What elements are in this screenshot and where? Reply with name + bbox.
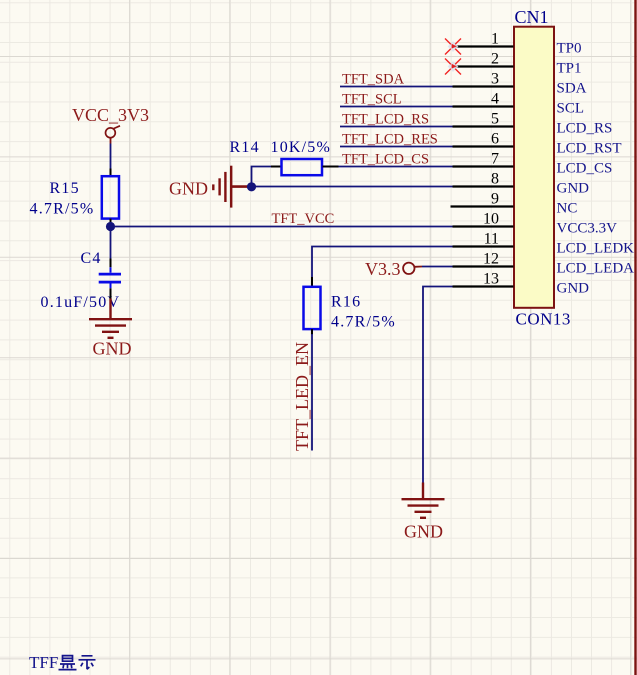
resistor R16 (304, 287, 396, 335)
wire C4 to ground (109, 299, 111, 319)
svg-text:9: 9 (491, 191, 499, 208)
pin 12 (453, 251, 635, 277)
ground GND bottom (402, 499, 445, 541)
pin 4 (453, 91, 585, 117)
svg-text:7: 7 (491, 151, 499, 168)
svg-text:VCC_3V3: VCC_3V3 (72, 105, 149, 125)
wire net TFT_SDA (pin 3) (340, 86, 453, 88)
svg-text:TFT_LCD_RES: TFT_LCD_RES (342, 131, 438, 147)
svg-text:4.7R/5%: 4.7R/5% (331, 314, 396, 331)
svg-text:GND: GND (93, 339, 132, 359)
svg-text:NC: NC (557, 201, 578, 217)
svg-text:4.7R/5%: 4.7R/5% (30, 201, 95, 218)
svg-text:TFT_LCD_CS: TFT_LCD_CS (342, 151, 429, 167)
svg-text:12: 12 (483, 251, 499, 268)
pin 6 (453, 131, 622, 157)
svg-text:6: 6 (491, 131, 499, 148)
pin 11 (453, 231, 635, 257)
svg-text:TFT_VCC: TFT_VCC (272, 211, 335, 227)
svg-text:CON13: CON13 (516, 310, 571, 329)
svg-text:8: 8 (491, 171, 499, 188)
pin 2 (453, 51, 582, 77)
svg-text:LCD_CS: LCD_CS (557, 161, 613, 177)
no-connect X pin 2 (445, 59, 461, 75)
svg-text:10K/5%: 10K/5% (271, 139, 332, 156)
wire pin 11 to R16 (312, 247, 453, 287)
svg-text:SDA: SDA (557, 81, 587, 97)
svg-text:LCD_LEDK: LCD_LEDK (557, 241, 635, 257)
pin 5 (453, 111, 613, 137)
wire R14 to pin 7 (net TFT_LCD_CS) (339, 166, 453, 168)
wire node to pin 8 (252, 186, 453, 188)
power port VCC_3V3 (72, 105, 149, 144)
svg-text:10: 10 (483, 211, 499, 228)
pin 13 (453, 271, 590, 297)
svg-text:11: 11 (484, 231, 499, 248)
no-connect X pin 1 (445, 39, 461, 55)
svg-text:TFT_SCL: TFT_SCL (342, 91, 402, 107)
pin 3 (453, 71, 587, 97)
wire V3.3 to pin 12 (422, 266, 453, 268)
svg-text:SCL: SCL (557, 101, 585, 117)
svg-text:V3.3: V3.3 (365, 259, 401, 279)
svg-text:LCD_RS: LCD_RS (557, 121, 613, 137)
resistor R14 (230, 139, 339, 175)
svg-text:GND: GND (169, 179, 208, 199)
wire net TFT_LED_EN below R16 (311, 334, 313, 451)
svg-text:TFT_LCD_RS: TFT_LCD_RS (342, 111, 429, 127)
pin 1 (453, 31, 582, 57)
svg-text:1: 1 (491, 31, 499, 48)
wire node up to R14 (252, 167, 272, 187)
pin 8 (453, 171, 590, 197)
svg-text:CN1: CN1 (515, 7, 549, 27)
svg-text:TFT_SDA: TFT_SDA (342, 71, 405, 87)
pin 9 (451, 191, 578, 217)
capacitor C4 (41, 250, 122, 311)
wire TFT_VCC net (node to pin 10) (111, 226, 453, 228)
svg-text:13: 13 (483, 271, 499, 288)
svg-text:TP1: TP1 (557, 61, 582, 77)
wire VCC_3V3 to R15 (110, 144, 112, 178)
wire R15 to node (110, 223, 112, 227)
svg-text:GND: GND (557, 281, 590, 297)
svg-text:4: 4 (491, 91, 499, 108)
svg-text:LCD_RST: LCD_RST (557, 141, 622, 157)
title TFF display (29, 653, 96, 672)
svg-text:LCD_LEDA: LCD_LEDA (557, 261, 635, 277)
svg-text:2: 2 (491, 51, 499, 68)
svg-text:TFT_LED_EN: TFT_LED_EN (292, 342, 312, 451)
svg-text:TP0: TP0 (557, 41, 582, 57)
svg-text:GND: GND (557, 181, 590, 197)
connector CN1 (514, 7, 571, 329)
svg-text:R14: R14 (230, 139, 260, 156)
svg-text:R16: R16 (331, 294, 361, 311)
wire net TFT_SCL (pin 4) (340, 106, 453, 108)
wire stub to ground (422, 483, 424, 499)
wire net TFT_LCD_RES (pin 6) (340, 146, 453, 148)
svg-text:C4: C4 (81, 250, 102, 267)
svg-text:R15: R15 (50, 180, 80, 197)
wire node to C4 (110, 227, 112, 268)
power ground GND (left, rotated) (169, 166, 252, 208)
power port V3.3 (365, 259, 422, 279)
pin 10 (453, 211, 618, 237)
svg-text:GND: GND (404, 522, 443, 542)
svg-text:TFF: TFF (29, 653, 58, 672)
resistor R15 (30, 176, 120, 223)
node junction GND/R14/pin8 (247, 182, 256, 191)
svg-text:3: 3 (491, 71, 499, 88)
wire net TFT_LCD_RS (pin 5) (340, 126, 453, 128)
wire pin 13 to bottom ground (423, 287, 453, 483)
node junction R15/C4/TFT_VCC (106, 222, 115, 231)
ground GND below C4 (89, 319, 132, 358)
svg-text:5: 5 (491, 111, 499, 128)
svg-text:0.1uF/50V: 0.1uF/50V (41, 294, 121, 311)
pin 7 (453, 151, 613, 177)
svg-text:VCC3.3V: VCC3.3V (557, 221, 618, 237)
